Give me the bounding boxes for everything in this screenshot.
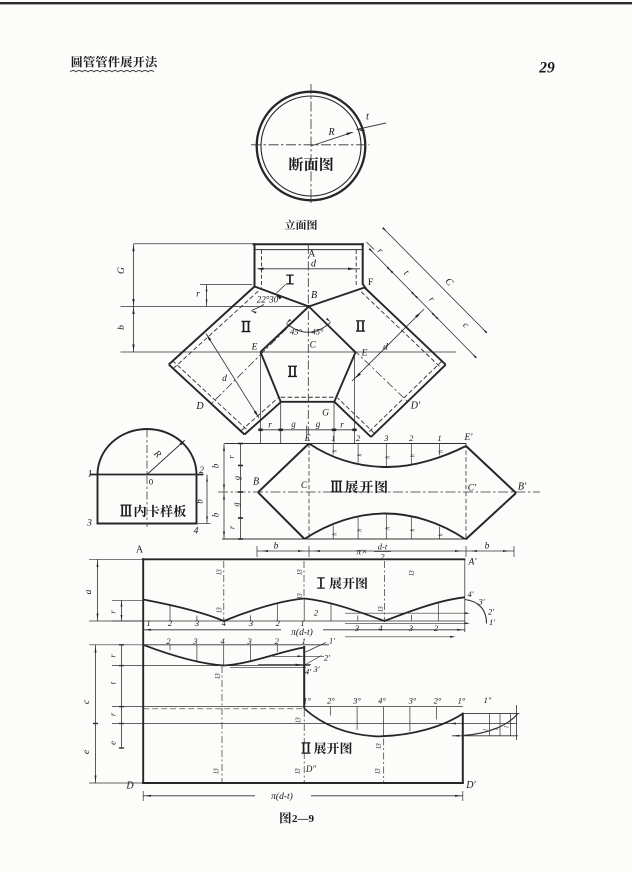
svg-text:h: h — [410, 454, 416, 457]
horizontal construction line through B level — [121, 306, 309, 308]
svg-text:A: A — [136, 545, 144, 556]
II dev right edge — [462, 713, 464, 784]
svg-text:1: 1 — [88, 470, 93, 480]
template mid horizontal line — [90, 474, 204, 476]
III dev bottom dimension b pi(d-t)/2 b — [257, 542, 514, 562]
svg-text:A′: A′ — [468, 558, 478, 568]
svg-text:D: D — [125, 781, 134, 792]
top pipe piece I : top edge double line — [253, 243, 364, 245]
svg-text:h: h — [439, 533, 445, 536]
seam B to E left — [261, 307, 309, 353]
II dev right-half ordinates — [330, 707, 332, 716]
left branch outer edge — [169, 287, 255, 365]
svg-text:r: r — [196, 289, 200, 299]
left inner dim column r t r e — [108, 645, 125, 748]
III development top cut curve — [309, 444, 466, 468]
svg-text:E′: E′ — [464, 433, 474, 443]
svg-text:l3: l3 — [377, 606, 385, 612]
svg-text:r: r — [340, 420, 344, 430]
label I (piece one) with leader — [276, 275, 294, 300]
svg-text:1: 1 — [437, 433, 441, 443]
seam B to E right — [309, 307, 356, 353]
svg-text:D″: D″ — [305, 764, 316, 774]
svg-text:D: D — [195, 401, 204, 412]
III dev top ordinates — [332, 444, 334, 455]
I dev caption Ⅰ展开图 — [317, 577, 367, 589]
svg-text:D′: D′ — [410, 401, 421, 412]
svg-text:l3: l3 — [408, 570, 416, 576]
I development top edge — [142, 558, 465, 560]
svg-text:l3: l3 — [295, 717, 303, 723]
left inner dim column r — [108, 600, 123, 621]
svg-text:2: 2 — [276, 618, 281, 628]
small r dimension left of pipe — [196, 285, 252, 307]
right branch mouth end face — [371, 365, 446, 437]
svg-text:1″: 1″ — [484, 695, 492, 705]
II dev bottom dimension pi(d-t) — [143, 791, 463, 802]
I dev leader lines to right arc — [345, 612, 468, 614]
svg-text:G: G — [117, 267, 127, 274]
svg-text:e: e — [108, 741, 118, 745]
svg-text:h: h — [386, 527, 392, 530]
right branch mouth inner dashed — [368, 361, 442, 433]
II dev top-left straight line — [143, 644, 329, 646]
label II right branch — [356, 320, 365, 331]
svg-text:h: h — [332, 533, 338, 536]
III dev left dim column b b — [211, 444, 226, 540]
left outer dim column a — [84, 559, 99, 621]
svg-text:h: h — [332, 449, 338, 452]
svg-text:4°: 4° — [378, 696, 386, 706]
svg-text:b: b — [195, 499, 205, 504]
I dev ordinates — [169, 605, 171, 621]
radius R dimension — [311, 127, 354, 146]
svg-text:d: d — [222, 374, 227, 384]
left outer dim column c e — [82, 645, 98, 783]
svg-text:B: B — [253, 477, 259, 488]
left branch mouth inner dashed — [172, 361, 247, 431]
svg-text:G: G — [322, 409, 329, 419]
I development right end arc to 1prime — [465, 600, 487, 624]
svg-text:2: 2 — [409, 433, 414, 443]
svg-text:3°: 3° — [408, 696, 417, 706]
svg-text:b: b — [211, 463, 221, 468]
II dev right-half top line — [112, 706, 463, 708]
svg-text:3: 3 — [86, 519, 92, 529]
svg-text:2°: 2° — [434, 696, 442, 706]
svg-text:C: C — [301, 481, 308, 491]
III development right point Bprime edges — [466, 446, 516, 493]
III dev bottom ordinates — [332, 526, 334, 539]
III development top line E-Eprime — [225, 443, 467, 445]
svg-text:h: h — [411, 529, 417, 532]
III dev caption Ⅲ展开图 — [331, 480, 387, 493]
template outline (arch) — [98, 429, 197, 524]
dimension d inside top pipe — [257, 259, 361, 271]
right branch axis centerline — [309, 307, 408, 402]
svg-text:1°: 1° — [303, 696, 311, 706]
svg-text:3′: 3′ — [477, 597, 484, 607]
II dev bottom edge — [142, 782, 464, 784]
svg-text:g: g — [231, 502, 241, 506]
left branch axis centerline — [211, 307, 308, 404]
left branch mouth end face — [169, 365, 245, 435]
svg-text:b: b — [211, 512, 221, 517]
II dev right-half cut curve — [304, 709, 463, 737]
svg-text:l3: l3 — [216, 569, 224, 575]
horizontal construction line through E level — [121, 351, 457, 353]
cross-section outer circle — [257, 92, 366, 201]
left branch inner wall dashed — [241, 398, 278, 431]
II dev dashed line at step level — [143, 708, 304, 710]
II dev long construction line — [112, 723, 517, 725]
figure caption 图 2-9 — [280, 812, 314, 825]
svg-text:B: B — [311, 290, 317, 301]
label 立面图 — [285, 220, 295, 230]
II dev caption Ⅱ展开图 — [302, 742, 352, 754]
svg-text:4′: 4′ — [305, 667, 311, 677]
III dev left dim column r g g r — [226, 444, 243, 540]
I dev trough/peak centerlines — [223, 561, 225, 621]
cross-section inner circle (wall) — [261, 96, 361, 196]
45 degree arc at B — [286, 318, 331, 337]
seam B to F corner — [309, 288, 365, 307]
svg-text:g: g — [316, 419, 321, 429]
svg-text:4′: 4′ — [467, 589, 473, 599]
vertical centerline — [310, 84, 312, 203]
II dev left-half cut curve — [143, 645, 304, 666]
svg-text:D′: D′ — [465, 780, 476, 791]
svg-text:1′: 1′ — [489, 617, 495, 627]
svg-text:l3: l3 — [374, 768, 382, 774]
point B junction dot — [307, 305, 310, 308]
II dev trough-level line left — [112, 665, 310, 667]
svg-text:l: l — [483, 729, 490, 731]
svg-text:2—9: 2—9 — [292, 813, 315, 825]
horizontal centerline — [251, 144, 370, 146]
top pipe left wall — [254, 243, 256, 287]
pentagon right side E to corner — [334, 352, 355, 401]
top pipe right wall inner dashed — [355, 250, 357, 285]
svg-text:l3: l3 — [294, 768, 302, 774]
svg-text:l: l — [504, 726, 511, 728]
svg-text:E: E — [304, 434, 311, 444]
svg-text:F: F — [368, 278, 373, 288]
III development vertical dashed at Eprime — [465, 444, 467, 540]
III development vertical dashed at E — [308, 444, 310, 540]
svg-text:h: h — [357, 529, 363, 532]
elevation left dimension column G and b — [117, 244, 135, 352]
svg-text:g: g — [291, 419, 296, 429]
svg-text:b: b — [485, 542, 490, 552]
svg-text:e: e — [82, 750, 92, 754]
pentagon bottom mouth edge — [280, 401, 335, 403]
svg-text:3: 3 — [194, 618, 199, 628]
projection line pentagon right corner — [333, 402, 335, 444]
label II left branch — [242, 321, 251, 332]
svg-text:1°: 1° — [458, 696, 466, 706]
svg-text:l3: l3 — [216, 607, 224, 613]
label 断面图 — [289, 157, 303, 171]
I development trough-level line — [112, 620, 465, 622]
svg-text:3: 3 — [408, 623, 413, 633]
left horizontal connector lines — [89, 558, 143, 560]
svg-text:4: 4 — [194, 527, 199, 537]
right diagonal dimension line C (outer) — [382, 227, 487, 333]
svg-text:4: 4 — [222, 618, 227, 628]
header title 圆管管件展开法 — [70, 56, 157, 72]
projection line pentagon left corner — [280, 402, 282, 444]
svg-text:29: 29 — [538, 60, 555, 77]
I dev bottom dimension pi(d-t) — [143, 627, 465, 638]
svg-text:π(d-t): π(d-t) — [271, 791, 293, 802]
template radius R arrow — [147, 440, 186, 475]
svg-text:d: d — [383, 343, 388, 353]
right branch inner edge — [334, 402, 371, 437]
projection line from E right / mouth — [354, 352, 356, 444]
right branch inner wall dashed — [338, 398, 375, 433]
label II pentagon — [288, 366, 297, 377]
angle leader arc — [252, 305, 265, 311]
horizontal construction line at pipe top level — [134, 243, 253, 245]
svg-text:π×: π× — [356, 548, 367, 558]
svg-text:2′: 2′ — [488, 607, 494, 617]
svg-text:2: 2 — [356, 433, 361, 443]
svg-text:1: 1 — [331, 433, 335, 443]
svg-text:E: E — [251, 343, 258, 353]
svg-text:l: l — [493, 728, 500, 730]
III development centerline — [218, 491, 540, 493]
svg-text:3: 3 — [248, 618, 253, 628]
template inner b dimension — [195, 475, 211, 524]
svg-text:1: 1 — [300, 618, 304, 628]
I dev right edge vertical — [464, 559, 466, 632]
svg-text:l3: l3 — [296, 593, 304, 599]
top scan edge line — [0, 2, 632, 4]
svg-text:r: r — [268, 420, 272, 430]
wall thickness t leader — [357, 112, 387, 133]
II dev right appendage detail — [451, 705, 520, 740]
svg-text:1′: 1′ — [329, 636, 335, 646]
II dev left-half ordinates — [169, 645, 171, 650]
III development bottom cut curve — [305, 514, 466, 540]
svg-text:h: h — [439, 450, 445, 453]
svg-text:2′: 2′ — [324, 653, 330, 663]
pentagon bottom inner dashed — [281, 396, 335, 398]
right branch outer edge — [365, 288, 446, 365]
III development left point B edges — [258, 444, 309, 493]
left branch inner edge — [245, 402, 282, 435]
svg-text:0: 0 — [149, 477, 153, 487]
left branch outer wall dashed — [174, 291, 259, 368]
svg-text:l3: l3 — [296, 569, 304, 575]
I development cut curve — [143, 597, 465, 621]
svg-text:h: h — [385, 456, 391, 459]
top pipe left wall inner dashed — [261, 250, 263, 288]
svg-text:3°: 3° — [352, 696, 361, 706]
r g g r dimension line — [258, 419, 356, 434]
svg-text:B′: B′ — [518, 482, 527, 493]
svg-text:45°: 45° — [312, 327, 325, 337]
svg-text:C′: C′ — [468, 484, 477, 494]
left branch diameter d dimension — [206, 334, 259, 419]
svg-text:l3: l3 — [214, 673, 222, 679]
svg-text:b: b — [117, 325, 127, 330]
III development bottom line — [222, 538, 466, 540]
top pipe right wall — [362, 243, 364, 284]
II dev step vertical — [303, 646, 305, 709]
template vertical centerline — [146, 430, 148, 528]
svg-text:1: 1 — [146, 618, 150, 628]
svg-text:g: g — [232, 476, 242, 480]
shared left edge A to D — [142, 558, 144, 783]
right branch diameter d dimension — [352, 309, 424, 381]
svg-text:a: a — [84, 589, 94, 594]
svg-text:b: b — [274, 542, 279, 552]
seam top-pipe left corner to B — [255, 287, 309, 307]
svg-text:l3: l3 — [213, 768, 221, 774]
svg-text:R: R — [327, 127, 334, 138]
svg-text:2: 2 — [199, 466, 204, 476]
pentagon left side E to corner — [261, 352, 281, 402]
short corner segment to F — [363, 284, 367, 289]
svg-text:3′: 3′ — [312, 664, 319, 674]
II dev trough centerlines — [221, 666, 223, 783]
svg-text:45°: 45° — [290, 327, 303, 337]
svg-text:3: 3 — [383, 433, 388, 443]
svg-text:l3: l3 — [375, 743, 383, 749]
II dev fan leader arrows — [272, 655, 324, 657]
svg-text:d-t: d-t — [378, 542, 388, 552]
svg-text:h: h — [357, 454, 363, 457]
svg-text:3: 3 — [354, 623, 359, 633]
projection line from E left — [260, 352, 262, 444]
template caption Ⅲ内卡样板 — [121, 505, 186, 518]
vertical axis centerline A-B-bottom — [307, 245, 309, 441]
short diagonal tick at F — [367, 242, 375, 250]
right diagonal dimension line inner r t r c — [369, 246, 477, 359]
svg-text:2°: 2° — [327, 696, 335, 706]
right branch outer wall dashed — [361, 292, 442, 369]
svg-text:C: C — [310, 341, 317, 351]
